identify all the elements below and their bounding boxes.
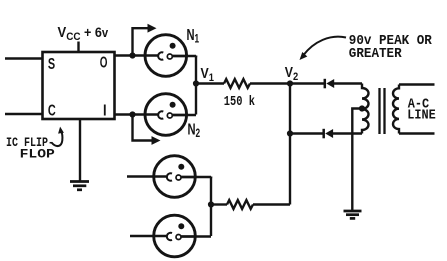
neon lamp N2 xyxy=(145,94,187,136)
resistor R2 xyxy=(227,200,253,209)
svg-text:GREATER: GREATER xyxy=(349,46,402,62)
wire input S xyxy=(5,57,43,59)
ground (flip-flop) xyxy=(70,180,89,183)
wire primary top lead xyxy=(399,83,435,85)
wire N3 left stub xyxy=(127,175,166,177)
callout arrow to V2 xyxy=(304,37,347,55)
resistor R1 150k xyxy=(224,79,250,88)
wire primary bottom lead xyxy=(399,132,435,134)
transformer T1 secondary winding xyxy=(362,84,369,134)
node junction at lower diode branch xyxy=(287,130,293,136)
wire V1 to resistor xyxy=(196,82,224,84)
wire resistor to V2 xyxy=(250,82,290,84)
node junction N3/N4 xyxy=(208,201,214,207)
wire D2 to transformer bottom xyxy=(333,132,363,134)
wire N2 right leg xyxy=(172,114,196,116)
node junction dot at O rail xyxy=(129,52,135,58)
arrow indicator for N1 xyxy=(133,28,149,55)
diode D1 xyxy=(324,79,327,89)
neon lamp N3 xyxy=(154,156,196,198)
svg-text:S: S xyxy=(48,55,55,73)
IC flip-flop U1 box xyxy=(43,52,115,119)
svg-text:O: O xyxy=(100,53,108,71)
neon lamp N4 xyxy=(154,215,196,257)
center tap node xyxy=(359,105,365,111)
wire O output rail xyxy=(115,54,159,56)
svg-text:FLOP: FLOP xyxy=(20,147,55,162)
transformer core xyxy=(378,88,380,134)
svg-text:C: C xyxy=(48,101,56,119)
node V2 xyxy=(287,80,293,86)
callout arrow to flip-flop xyxy=(52,130,63,146)
transformer T1 primary winding xyxy=(393,85,399,134)
Vcc lead wire xyxy=(77,42,79,53)
ground lead from flip-flop xyxy=(79,119,81,182)
wire center tap to ground xyxy=(352,109,362,212)
wire N4 left stub xyxy=(130,235,166,237)
wire junction to resistor R2 xyxy=(211,203,227,205)
wire resistor R2 to V2 bus xyxy=(253,203,290,205)
svg-text:LINE: LINE xyxy=(407,107,436,123)
wire N1 right to V1 xyxy=(172,54,196,57)
arrow indicator for N2 xyxy=(133,115,153,141)
wire input C xyxy=(5,113,43,115)
wire lower branch to diode D2 xyxy=(290,132,324,134)
wire I output rail xyxy=(115,113,159,115)
wire D1 to transformer xyxy=(334,82,363,84)
node junction dot at I rail xyxy=(129,111,135,117)
node V1 xyxy=(193,80,199,86)
wire V2 vertical bus xyxy=(289,84,291,205)
svg-text:I: I xyxy=(103,102,107,120)
neon lamp N1 xyxy=(145,35,187,77)
diode D2 xyxy=(322,129,325,139)
wire V2 to diode D1 xyxy=(290,82,325,84)
svg-text:150 k: 150 k xyxy=(224,94,255,110)
wire N3 right leg xyxy=(181,175,211,178)
wire N4 right leg xyxy=(181,235,211,237)
ground (transformer) xyxy=(344,210,362,213)
